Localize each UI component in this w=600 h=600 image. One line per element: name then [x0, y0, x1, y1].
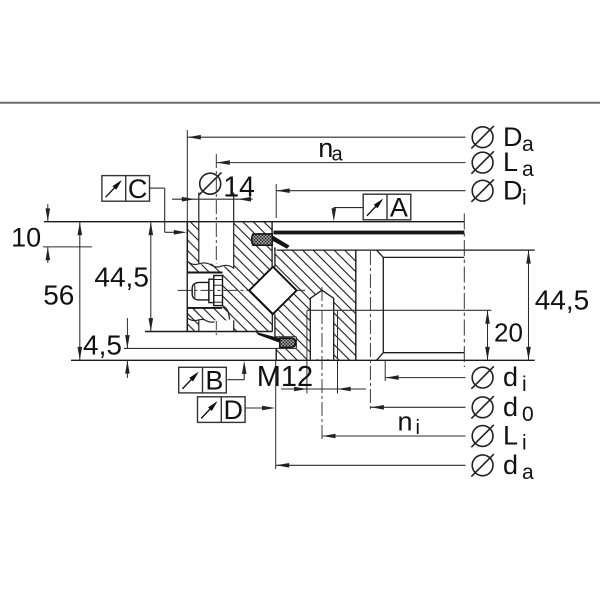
svg-text:a: a	[332, 143, 344, 165]
svg-text:i: i	[522, 432, 527, 455]
svg-text:a: a	[522, 461, 534, 484]
svg-text:14: 14	[223, 171, 255, 203]
svg-text:M12: M12	[257, 361, 313, 393]
svg-text:d: d	[503, 362, 518, 392]
svg-text:d: d	[503, 392, 518, 422]
svg-text:a: a	[522, 158, 534, 181]
svg-text:B: B	[205, 366, 223, 396]
svg-text:4,5: 4,5	[83, 329, 122, 360]
svg-text:i: i	[416, 417, 420, 439]
svg-text:a: a	[522, 133, 534, 156]
svg-text:i: i	[522, 373, 527, 396]
svg-text:D: D	[223, 395, 243, 425]
svg-text:i: i	[522, 186, 527, 209]
svg-text:44,5: 44,5	[535, 285, 590, 316]
svg-text:C: C	[128, 174, 148, 204]
svg-text:L: L	[503, 421, 518, 451]
svg-text:0: 0	[522, 403, 534, 426]
svg-text:A: A	[390, 193, 408, 223]
svg-text:56: 56	[43, 279, 74, 310]
svg-text:D: D	[503, 175, 523, 205]
svg-text:n: n	[398, 407, 413, 437]
svg-text:L: L	[503, 147, 518, 177]
svg-text:10: 10	[11, 223, 41, 253]
svg-text:d: d	[503, 450, 518, 480]
svg-text:44,5: 44,5	[94, 261, 148, 292]
svg-text:20: 20	[494, 317, 523, 347]
